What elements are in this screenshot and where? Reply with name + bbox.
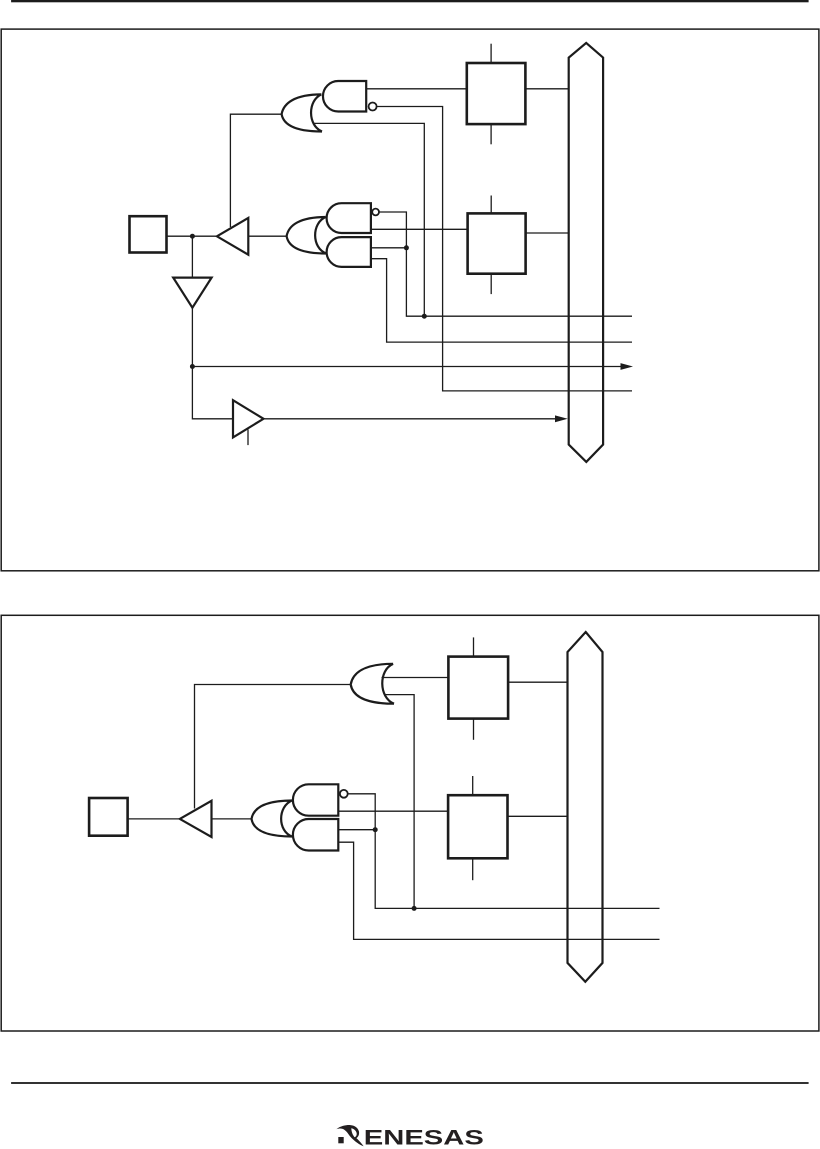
wire: FF4 output to bus (508, 815, 568, 817)
wire: FF3 clock stub top (473, 637, 475, 656)
wire: FF1 clock stub top (490, 44, 492, 63)
wire: U1 upper input to register FF1 (366, 88, 467, 90)
register FF1 (DDR) (467, 63, 526, 124)
or-gate U7 (points left) (252, 801, 293, 837)
bubble of U8 (340, 790, 348, 798)
nand-gate U8 (upper, bubble on right) (293, 784, 338, 815)
input buffer B2 (points down) (173, 278, 211, 308)
wire: B3 enable stub (247, 430, 249, 446)
wire: buffer input to OR gate U3 (249, 235, 287, 237)
wire: pad to output buffer (128, 818, 180, 820)
figure frame (top block diagram) (1, 29, 819, 571)
wire: U9 lower output down to bus line 2 (338, 842, 659, 939)
bubble of U1 (369, 103, 377, 111)
register FF2 (DR) (468, 213, 526, 273)
wire: FF2 clock stub bottom (490, 274, 492, 294)
junction dot A (pad rail) (190, 234, 195, 239)
figure frame (bottom block diagram) (1, 615, 819, 1031)
or-gate U2 (pull-up control, points left) (282, 94, 322, 131)
nand-gate U4 (upper, bubble on right) (327, 203, 371, 233)
or-gate U3 (output control, points left) (287, 217, 327, 254)
wire: B3 output to bus with arrow (264, 418, 556, 420)
junction dot F (bus line 1) (412, 906, 417, 911)
wire: U9 upper output to junction E (338, 829, 375, 831)
input buffer B3 (points right) (233, 400, 264, 437)
tri-state output buffer B1 (points left) (217, 218, 248, 255)
junction dot E (U9 output on vertical) (373, 827, 378, 832)
wire: buffer input to OR gate U7 (213, 818, 252, 820)
logo R swoosh (336, 1125, 363, 1146)
wire: FF1 clock stub bottom (490, 124, 492, 144)
wire: U6 upper input to register FF3 (382, 677, 449, 679)
wire: FF2 clock stub top (490, 196, 492, 214)
wire: input buffer down to read line (192, 308, 233, 419)
output buffer B4 (points left) (180, 801, 212, 837)
wire: pin state read line with arrow (192, 366, 621, 368)
wire: U8 bubble line down to bus line 1 (347, 794, 659, 909)
register FF4 (DR) (448, 795, 507, 858)
wire: FF3 clock stub bottom (473, 719, 475, 740)
footer rule (11, 1082, 809, 1084)
wire: U8 input from register FF4 (338, 810, 448, 812)
arrowhead at bus (555, 415, 568, 422)
junction dot C (bus line 1) (422, 314, 427, 319)
wire: U4 bubble line down to bus line 1 (379, 212, 632, 316)
wire: U4 input from register FF2 (371, 228, 468, 230)
wire: U6 lower input down to junction on bus line (385, 695, 415, 909)
header rule (11, 0, 809, 2)
nand-gate U9 (lower) (293, 819, 338, 851)
wire: U5 lower output down to bus line 2 (371, 259, 632, 342)
Renesas logo (336, 1125, 484, 1149)
nand-gate U5 (lower) (327, 237, 371, 267)
wire: OR gate U6 output to buffer enable (195, 685, 351, 809)
or-gate U6 (points left) (351, 664, 394, 704)
internal data bus (top figure) (569, 43, 603, 462)
wire: U5 upper output to junction B (371, 247, 407, 249)
wire: FF2 output to bus (526, 232, 569, 234)
wire: pad junction down to input buffer (191, 236, 193, 277)
nand-gate U1 (points left, bubble on right) (323, 81, 366, 112)
pad P2 (I/O pin) (89, 798, 128, 836)
wire: U1 bubble line down to bus line 4 (376, 107, 632, 391)
wire: FF3 output to bus (508, 681, 567, 683)
pad P1 (I/O pin) (130, 216, 167, 252)
wire: pad to output buffer (167, 235, 217, 237)
logo R square dot (338, 1137, 343, 1143)
register FF3 (DDR) (448, 657, 508, 719)
wire: OR gate U2 output to tri-state buffer enable (230, 114, 281, 227)
wire: FF4 clock stub bottom (472, 858, 474, 880)
wire: U2 lower input down to junction on bus line 1 (314, 123, 425, 316)
wire: FF4 clock stub top (472, 776, 474, 795)
bubble of U4 (372, 209, 379, 216)
junction dot B (U5 output on vertical) (404, 245, 409, 250)
arrowhead on read line (621, 363, 634, 370)
wire: FF1 output to bus (525, 88, 568, 90)
svg-text:ENESAS: ENESAS (364, 1125, 484, 1149)
internal data bus (bottom figure) (568, 632, 603, 982)
junction dot D (read line) (190, 364, 195, 369)
